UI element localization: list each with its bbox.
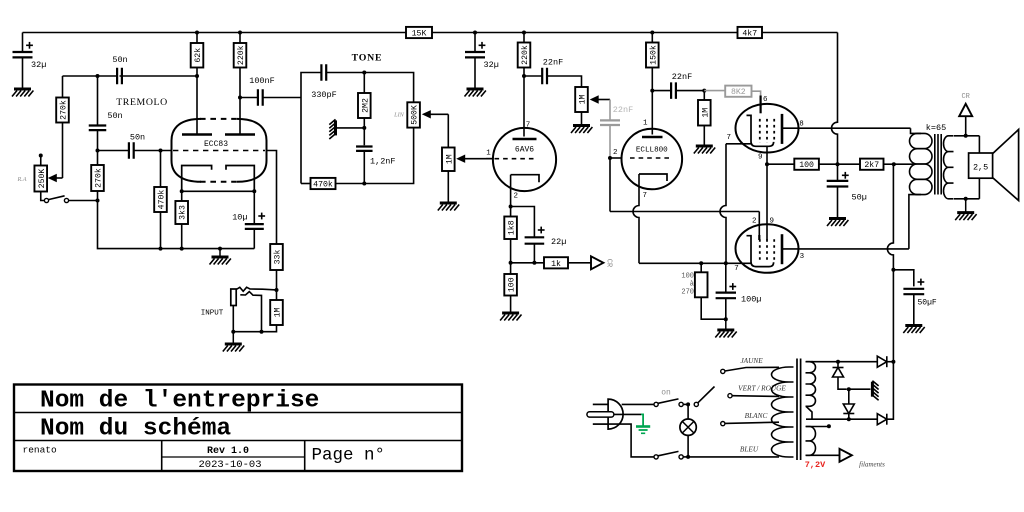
anode bar upper pentode <box>781 114 784 144</box>
svg-text:1: 1 <box>486 150 491 158</box>
wire D1 to B+ node <box>887 361 894 363</box>
ground below 100µ <box>715 319 736 337</box>
svg-text:1: 1 <box>643 120 648 128</box>
resistor 33k (grid stopper) <box>270 244 283 270</box>
wire to BLEU node <box>683 456 688 458</box>
junction bridge + node <box>891 360 895 364</box>
off-page connector CR (tremolo) <box>591 256 603 269</box>
capacitor 50µF reservoir <box>903 289 924 294</box>
OT secondary loops <box>944 136 954 199</box>
junction tone bottom node <box>362 182 366 186</box>
svg-text:470k: 470k <box>313 180 333 190</box>
switch contact right (tremolo) <box>64 198 68 202</box>
wire pin8 anode line <box>782 127 911 129</box>
resistor 150k (driver plate) <box>646 43 659 68</box>
ground tremolo cathode line <box>210 249 231 265</box>
junction 22µ/CR line <box>532 261 536 265</box>
svg-text:CR: CR <box>961 93 970 101</box>
resistor 270k (tremolo 2) <box>91 165 104 191</box>
svg-text:2: 2 <box>613 149 618 157</box>
capacitor 50µ <box>827 181 849 187</box>
wire secondary top lead <box>954 135 979 137</box>
wire HV bottom lead <box>811 418 877 420</box>
wire secondary bottom lead <box>954 198 979 200</box>
capacitor 22nF (coupling 1) <box>542 68 547 85</box>
wire B+ node to 50µF <box>893 270 913 287</box>
svg-text:10µ: 10µ <box>232 213 247 223</box>
wire filament top lead <box>806 426 829 428</box>
svg-text:ECLL800: ECLL800 <box>636 147 668 155</box>
selector contact VERT/ROUGE <box>728 394 732 398</box>
capacitor 22µ (cathode bypass) <box>525 237 545 243</box>
wire tone loop left/top <box>301 73 322 184</box>
wire jack sleeve down <box>232 306 234 332</box>
svg-text:330pF: 330pF <box>311 90 337 100</box>
wire pin9 cathode down <box>766 146 768 164</box>
svg-text:100: 100 <box>681 273 694 281</box>
wire input node to 1M <box>276 290 278 300</box>
wire CR stub up <box>965 115 967 136</box>
anode bar ECC83 triode 1 <box>182 133 212 136</box>
wire triode cathode down <box>638 174 640 196</box>
wire cathode node to 22µ <box>511 207 535 238</box>
wire lower g1 lead <box>758 235 760 240</box>
junction rail/62k <box>195 31 199 35</box>
ground below 32µ left <box>12 89 33 97</box>
wire 1k8 to CR node <box>510 239 512 263</box>
wire CT node to primary <box>894 163 914 165</box>
wire 220k-2 to anode node <box>523 68 525 77</box>
junction rail/220k-2 <box>522 31 526 35</box>
wire node A down to 50n-2 <box>97 76 99 125</box>
capacitor 10µ (cathode bypass) <box>245 224 264 229</box>
svg-text:1M: 1M <box>701 108 710 118</box>
terminal dot 250K top <box>39 154 43 158</box>
wire 270k-1 to wiper <box>62 123 64 179</box>
svg-text:8: 8 <box>799 121 804 129</box>
plus sign 50µF <box>918 279 925 286</box>
jack shunt spring <box>240 292 261 332</box>
wire BLEU line <box>688 456 779 458</box>
wire switch to node B <box>69 200 98 202</box>
capacitor 50n tremolo top <box>117 68 122 85</box>
svg-text:2k7: 2k7 <box>864 160 879 170</box>
junction CR node <box>509 261 513 265</box>
off-page connector filaments <box>840 449 852 462</box>
PT HV secondary loops <box>806 362 816 407</box>
capacitor 1,2nF <box>356 147 373 151</box>
wire anode node to 22nF-2 <box>652 90 671 92</box>
wire tremolo top line b <box>120 75 198 77</box>
plus sign 10µ <box>258 213 265 220</box>
resistor 15K box <box>406 27 432 39</box>
wire CR node to 100 <box>510 263 512 274</box>
svg-text:7: 7 <box>643 192 648 200</box>
svg-text:1k8: 1k8 <box>507 220 517 235</box>
wire 1M vol to ground <box>447 171 449 203</box>
grid dashed line ECC83 <box>173 150 265 152</box>
svg-text:Page n°: Page n° <box>312 446 386 466</box>
junction grid wire/470k <box>159 149 163 153</box>
junction BLEU node <box>686 455 690 459</box>
cathode 6AV6 <box>511 175 539 183</box>
wire 50n-3 to grid junction <box>134 150 172 152</box>
junction sleeve/shunt <box>260 330 264 334</box>
junction tone mid node <box>362 126 366 130</box>
svg-text:15K: 15K <box>412 30 427 39</box>
wire speaker bottom <box>978 178 980 199</box>
wire phase to switch <box>622 403 654 405</box>
svg-text:VERT / ROUGE: VERT / ROUGE <box>738 384 786 393</box>
resistor 220k (tremolo plate) <box>234 43 247 68</box>
svg-text:220k: 220k <box>520 45 530 65</box>
svg-text:6AV6: 6AV6 <box>515 146 534 155</box>
capacitor 50n grid coupling <box>129 142 134 159</box>
grid g3 dashed lower pentode <box>773 239 775 263</box>
hop triode cathode over grid line <box>633 196 639 263</box>
triode ECLL800 envelope <box>622 129 683 190</box>
wire rail to C 32µ left <box>22 33 24 53</box>
svg-text:R.A: R.A <box>16 176 26 183</box>
wire filament bottom lead <box>806 454 840 456</box>
wiper arrow into 500K <box>422 110 449 118</box>
grid g2 dashed upper pentode <box>766 119 768 143</box>
wire B+ node to 50µ <box>837 164 839 181</box>
speaker 2,5 <box>969 130 1019 201</box>
grid g2 dashed lower pentode <box>766 239 768 263</box>
wire 100µ top <box>725 263 727 292</box>
wire lamp bottom <box>687 435 689 457</box>
wire 100nF to tone loop <box>263 97 301 99</box>
svg-text:1k: 1k <box>551 259 561 269</box>
junction ground node bottom <box>218 247 222 251</box>
capacitor 50n tremolo mid <box>89 126 107 131</box>
junction rail/32µ-2 <box>473 31 477 35</box>
plus sign 32µ-2 <box>479 42 486 49</box>
ground below 1M volume <box>438 203 459 211</box>
junction node anode2 ECC83 <box>238 96 242 100</box>
svg-text:JAUNE: JAUNE <box>740 356 763 365</box>
resistor 1k <box>544 257 568 269</box>
ground below 1M depth <box>571 126 592 134</box>
junction rail/220k-1 <box>238 31 242 35</box>
wire anode node to 22nF <box>524 75 542 77</box>
grid g1 dashed lower pentode <box>759 239 761 263</box>
svg-text:1M: 1M <box>579 95 588 105</box>
wire CR node to 1k <box>511 262 544 264</box>
potentiometer 250K box <box>34 166 47 192</box>
wire pin9 node to 100R <box>767 163 794 165</box>
svg-text:8K2: 8K2 <box>731 88 746 97</box>
wire JAUNE tap <box>725 367 779 371</box>
junction rail/150k <box>650 31 654 35</box>
wire 330pF to node <box>326 73 413 103</box>
cathode upper pentode <box>747 115 774 146</box>
wire grid node to 1M grid <box>703 91 705 100</box>
wire 22µ to CR line <box>533 244 535 263</box>
svg-text:150k: 150k <box>648 45 658 65</box>
wire 100µ bottom <box>725 298 727 319</box>
svg-text:2M2: 2M2 <box>361 98 370 113</box>
junction secondary bottom/ground <box>964 197 968 201</box>
wire lamp top <box>687 404 689 419</box>
wire HV top lead <box>806 361 877 363</box>
junction cathode bus/100µ <box>724 261 728 265</box>
svg-text:on: on <box>661 389 671 398</box>
svg-text:k=65: k=65 <box>926 123 946 133</box>
wire D2 to mid node <box>838 377 847 389</box>
wire earth pin to corner <box>614 413 641 415</box>
ground below 100 <box>500 313 521 321</box>
resistor 3k3 (cathode) <box>175 201 188 224</box>
switch contact on-1 left <box>654 402 658 406</box>
junction CT node <box>892 162 896 166</box>
svg-text:Nom du schéma: Nom du schéma <box>40 416 231 443</box>
resistor 100 (screen line) <box>794 159 819 171</box>
capacitor 100nF <box>258 89 263 106</box>
wire secondary to speaker top <box>978 136 980 153</box>
svg-text:33k: 33k <box>273 250 283 265</box>
anode bar ECC83 triode 2 <box>225 133 255 136</box>
wire 62k to anode node <box>196 68 198 77</box>
plus sign 100µ <box>729 283 736 290</box>
svg-text:250K: 250K <box>38 169 47 189</box>
wire cathode to 1k8 <box>510 207 512 217</box>
svg-text:50n: 50n <box>107 111 122 121</box>
resistor 8K2 grey <box>725 86 751 98</box>
resistor 1M input box <box>270 300 283 325</box>
plus sign 32µ left <box>26 42 33 49</box>
svg-text:1M: 1M <box>274 308 283 318</box>
capacitor 330pF <box>321 64 326 81</box>
wire 50µ to ground <box>837 187 839 219</box>
selector blade <box>698 387 715 403</box>
svg-text:220k: 220k <box>236 45 246 65</box>
wire grid node to 50n-3 <box>98 150 130 152</box>
switch blade on-1 <box>658 399 679 403</box>
wire pin8 to primary top <box>911 128 922 133</box>
wire switch to sel node <box>683 403 688 405</box>
wire B+ down to bridge <box>892 270 894 361</box>
junction HV bottom/D3 <box>847 417 851 421</box>
wire anode1 into tube <box>196 76 198 134</box>
ground below 32µ-2 <box>465 89 486 97</box>
cathode ECLL800 triode <box>639 174 667 181</box>
ground below 50µ <box>827 219 848 227</box>
wire cathode1 to 3k3 <box>181 191 183 201</box>
wire anode2 to 100nF <box>240 97 258 99</box>
wire pin6 lead into tube <box>759 96 761 114</box>
wire wiper corner grey cap <box>609 100 611 121</box>
wire grey to 8K2 <box>704 90 725 92</box>
junction pentode grid node <box>702 89 706 93</box>
earth symbol green <box>636 414 650 433</box>
jack tip spring <box>236 287 276 291</box>
wire 150k to anode node <box>651 68 653 91</box>
svg-text:7: 7 <box>726 134 731 142</box>
selector contact JAUNE <box>721 369 725 373</box>
svg-text:BLANC: BLANC <box>745 411 768 420</box>
wire bias R top <box>700 263 702 272</box>
wire HV top curve <box>811 361 814 363</box>
wire neutral down <box>608 424 654 457</box>
svg-text:270: 270 <box>681 289 694 297</box>
potentiometer 500K box <box>407 102 420 127</box>
wire 2k7 to CT node <box>884 163 894 165</box>
capacitor 32µ (second filter) <box>465 52 485 57</box>
wire primary bottom to pin3 line <box>909 195 921 249</box>
terminal filament top <box>827 424 831 428</box>
junction driver anode node <box>650 89 654 93</box>
svg-text:100: 100 <box>508 277 517 292</box>
svg-text:22nF: 22nF <box>613 105 633 115</box>
svg-text:2,5: 2,5 <box>973 163 988 173</box>
wire 50µF to ground <box>913 294 915 325</box>
junction cathode bus/bias R <box>699 261 703 265</box>
wire 2M2 to mid node <box>363 118 365 128</box>
svg-text:1M: 1M <box>445 154 454 164</box>
wire bottom line segment <box>161 248 255 250</box>
wire top rail right of 15K <box>432 32 738 34</box>
capacitor 100µ (cathode) <box>716 293 736 299</box>
wire grid2 from envelope <box>267 151 277 245</box>
svg-text:50n: 50n <box>112 55 127 65</box>
wire rail to 220k <box>239 33 241 44</box>
junction tone top node <box>362 71 366 75</box>
chassis ground tone stack <box>329 119 335 139</box>
svg-text:3k3: 3k3 <box>178 205 188 220</box>
wire grey cap to grid node <box>609 125 611 158</box>
triode ECC83 envelope <box>172 119 267 182</box>
wire pin9 to lower g2 <box>766 164 768 240</box>
wire B+ down hop over pin3 line <box>887 164 893 270</box>
wire 1M grid to ground <box>703 126 705 147</box>
wire B+ top rail <box>23 32 407 34</box>
wire 100R to B+ node <box>819 163 860 165</box>
wire 32µ left to ground <box>22 58 24 90</box>
svg-text:62k: 62k <box>193 48 203 63</box>
junction cathode2 <box>252 189 256 193</box>
wire grid node down <box>609 158 611 212</box>
wire grid node to 270k-2 <box>97 151 99 166</box>
selector contact common <box>694 402 698 406</box>
wire D3 to bottom <box>848 414 850 420</box>
junction grid1 node <box>96 149 100 153</box>
junction sel node <box>686 402 690 406</box>
wire 500K wiper to 1M vol <box>447 114 449 147</box>
wire tone bottom left <box>301 183 311 185</box>
svg-text:22nF: 22nF <box>543 58 563 68</box>
wire B+ from 4k7 hop over pin8 line <box>832 33 838 165</box>
wire VERT/ROUGE tap <box>732 395 779 398</box>
pentode ECLL800 lower envelope <box>736 224 799 273</box>
hop upper cathode wire over grid line <box>720 144 726 263</box>
junction 100µ/ground <box>724 317 728 321</box>
wire 1M depth to ground <box>581 112 583 126</box>
PT primary loops <box>772 367 794 457</box>
svg-text:100nF: 100nF <box>249 76 275 86</box>
junction cathode1 <box>180 189 184 193</box>
junction 3k3/bottom <box>180 247 184 251</box>
junction 470k/bottom line <box>159 247 163 251</box>
wire rail to 62k <box>196 33 198 44</box>
junction pin9/screen line <box>765 162 769 166</box>
svg-text:à: à <box>690 281 694 289</box>
svg-text:2023-10-03: 2023-10-03 <box>198 459 261 471</box>
svg-text:2: 2 <box>514 193 519 201</box>
junction B+/screen line <box>836 162 840 166</box>
potentiometer 1M volume box <box>442 148 455 172</box>
chassis ground bridge <box>872 381 878 401</box>
junction HV top/D2 <box>836 360 840 364</box>
resistor 1k8 (cathode) <box>504 217 517 240</box>
diode D2 <box>833 368 844 378</box>
wire HV bottom curve <box>806 406 812 419</box>
wire 6AV6 grid stub <box>486 158 493 160</box>
wire lower grid entry <box>758 212 760 241</box>
title block frame <box>14 385 462 472</box>
anode bar lower pentode <box>781 234 784 264</box>
svg-text:filaments: filaments <box>859 461 885 469</box>
wire 22nF-2 to grid node <box>676 90 705 92</box>
wire anode node into 6AV6 <box>523 76 525 137</box>
svg-text:50µ: 50µ <box>852 193 867 203</box>
svg-text:32µ: 32µ <box>31 60 46 70</box>
wire mid to D3 <box>848 389 850 404</box>
resistor 470k (tone) <box>311 178 336 190</box>
cathode ECC83 triode 2 <box>226 166 254 192</box>
junction sleeve/ground <box>231 330 235 334</box>
wire anode2 into tube <box>239 98 241 134</box>
transformer OT core <box>935 134 941 195</box>
wire mid node to 1.2nF <box>363 128 365 145</box>
wire 22nF to 1M pot <box>547 76 582 87</box>
resistor 470k (grid leak) <box>154 187 167 212</box>
wiper arrow 1M volume from 6AV6 grid <box>456 155 493 163</box>
wire anode into ECLL800 triode <box>651 91 653 135</box>
resistor 2M2 <box>358 93 371 118</box>
svg-text:50µF: 50µF <box>918 299 937 308</box>
wire 220k to anode2 node <box>239 68 241 98</box>
wire 50n-2 to grid node <box>97 130 99 150</box>
cathode lower pentode <box>747 236 774 267</box>
switch blade on-2 <box>658 451 679 455</box>
off-page connector CR (speaker top) <box>959 104 972 116</box>
svg-text:1,2nF: 1,2nF <box>370 157 396 167</box>
wire grid line to lower pentode <box>610 211 759 213</box>
wire 270k-1 top <box>62 76 64 98</box>
wire 8K2 to pin6 <box>752 91 761 95</box>
wire 250K top terminal <box>40 156 42 166</box>
wiper arrow into 250K pot <box>48 174 63 182</box>
neon lamp <box>680 419 696 435</box>
junction bridge mid node <box>847 387 851 391</box>
mains plug <box>587 399 623 429</box>
wire 1M bottom to sleeve line <box>233 325 276 332</box>
wire pin3 anode line <box>782 248 909 250</box>
svg-text:22nF: 22nF <box>672 72 692 82</box>
svg-text:9: 9 <box>758 154 763 162</box>
capacitor 32µ left plates <box>13 52 33 57</box>
junction tremolo node A <box>96 74 100 78</box>
svg-text:2: 2 <box>752 218 757 226</box>
grid dashed 6AV6 <box>495 158 536 160</box>
wire 10µ to bottom line <box>253 229 255 249</box>
wire D4 to + node <box>887 362 894 420</box>
wire rail to C 32µ-2 <box>474 33 476 53</box>
pentode ECLL800 upper envelope <box>736 104 799 153</box>
ground input jack <box>223 332 244 352</box>
